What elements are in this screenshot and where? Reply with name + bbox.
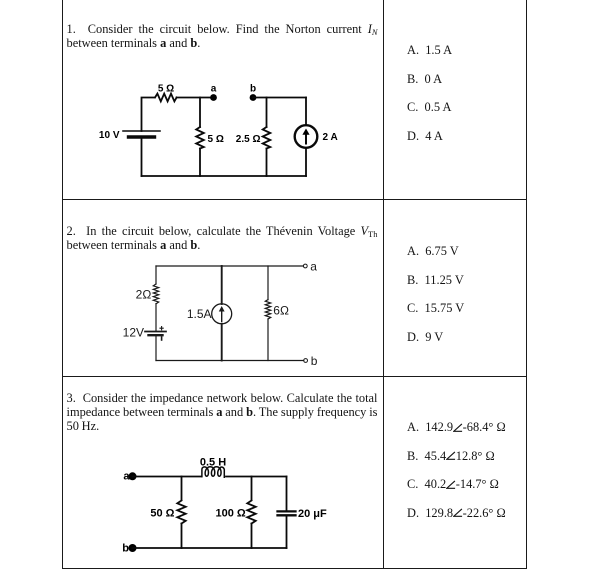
svg-text:10 V: 10 V	[99, 130, 120, 141]
svg-text:a: a	[123, 471, 130, 483]
resistor R6 50 ohm zigzag	[177, 501, 185, 524]
wire current source to bottom rail	[221, 324, 223, 361]
resistor R3 2.5 ohm vertical zigzag	[263, 127, 271, 149]
current source I1 arrow up	[305, 132, 307, 144]
capacitor C1 bottom plate	[278, 514, 296, 516]
wire left branch top	[155, 266, 157, 284]
top rail wire	[156, 265, 304, 267]
svg-text:a: a	[310, 259, 317, 273]
bottom rail wire	[133, 547, 287, 549]
question 1 text	[67, 23, 378, 51]
svg-text:6Ω: 6Ω	[273, 304, 289, 318]
svg-text:12V: 12V	[123, 325, 144, 339]
wire battery bottom to bottom rail	[141, 137, 143, 176]
question 2 answers	[407, 237, 464, 351]
table borders	[62, 0, 63, 569]
wire current source to bottom rail	[305, 148, 307, 176]
wire R3 to bottom rail	[266, 149, 268, 177]
svg-text:50 Ω: 50 Ω	[150, 508, 174, 520]
question 1 answers	[407, 36, 452, 150]
resistor R1 5 ohm horizontal zigzag	[155, 94, 177, 102]
svg-text:b: b	[250, 84, 256, 95]
top rail wire right of inductor	[226, 476, 287, 478]
wire capacitor to bottom rail	[286, 516, 288, 549]
current source I1 circle	[295, 125, 318, 148]
wire R7 to bottom rail	[251, 524, 253, 549]
wire capacitor branch top	[286, 477, 288, 512]
svg-text:100 Ω: 100 Ω	[215, 508, 245, 520]
resistor R4 2 ohm zigzag	[153, 284, 158, 304]
resistor R5 6 ohm zigzag	[265, 300, 270, 319]
wire node b branch down	[266, 98, 268, 128]
battery V2 short plate	[149, 334, 163, 336]
resistor R7 100 ohm zigzag	[247, 501, 255, 524]
terminal b node dot	[250, 94, 257, 101]
current source I2 arrow	[221, 309, 223, 322]
svg-text:1.5A: 1.5A	[187, 307, 212, 321]
svg-text:5 Ω: 5 Ω	[208, 134, 224, 145]
wire 50 ohm branch top	[181, 477, 183, 501]
svg-text:a: a	[211, 84, 217, 95]
battery minus mark	[161, 337, 163, 340]
battery V1 long plate	[123, 130, 160, 132]
wire middle branch top	[221, 266, 223, 304]
circuit 2 schematic	[118, 258, 320, 366]
bottom rail wire	[142, 175, 307, 177]
svg-text:2Ω: 2Ω	[136, 287, 152, 301]
battery plus mark	[160, 327, 163, 330]
battery V1 short plate	[129, 135, 155, 138]
terminal b dot	[129, 544, 137, 552]
terminal a open circle	[303, 264, 307, 268]
svg-text:5 Ω: 5 Ω	[158, 83, 174, 94]
wire R4 to battery	[155, 304, 157, 331]
wire node a branch down	[199, 98, 201, 128]
wire right rail top to current source	[305, 98, 307, 126]
wire battery to bottom rail	[155, 336, 157, 361]
terminal a dot	[129, 472, 137, 480]
capacitor C1 top plate	[278, 510, 296, 512]
svg-text:20 μF: 20 μF	[298, 508, 327, 520]
svg-text:b: b	[122, 542, 129, 554]
top rail wire left of inductor	[133, 476, 202, 478]
wire R2 to bottom rail	[199, 149, 201, 177]
svg-text:b: b	[311, 354, 318, 368]
question 3 text	[67, 392, 378, 433]
battery V2 long plate	[145, 331, 166, 333]
svg-text:2.5 Ω: 2.5 Ω	[236, 134, 261, 145]
circuit 3 schematic	[112, 450, 330, 556]
circuit 1 schematic	[95, 78, 340, 182]
terminal b open circle	[304, 359, 308, 363]
wire R5 to bottom rail	[267, 319, 269, 361]
wire top-left from battery to resistor R1	[142, 98, 155, 132]
question 3 answers	[407, 413, 506, 527]
inductor L1 0.5 H loops	[202, 467, 224, 477]
bottom rail wire	[156, 360, 304, 362]
question 2 text	[67, 225, 378, 253]
wire right branch top	[267, 266, 269, 300]
wire terminal b to right corner	[253, 97, 306, 99]
svg-text:2 A: 2 A	[323, 132, 338, 143]
current source I2 circle	[212, 304, 232, 324]
wire R6 to bottom rail	[181, 524, 183, 549]
wire resistor R1 to terminal a	[177, 97, 214, 99]
terminal a node dot	[210, 94, 217, 101]
wire 100 ohm branch top	[251, 477, 253, 501]
resistor R2 5 ohm vertical zigzag	[196, 127, 204, 149]
svg-text:0.5 H: 0.5 H	[200, 456, 226, 468]
